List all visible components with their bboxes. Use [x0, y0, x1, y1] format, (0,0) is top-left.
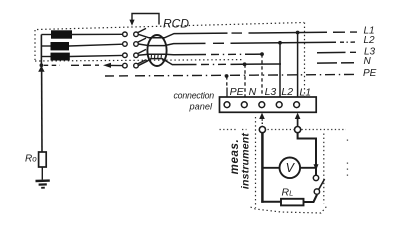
- toroid CT: [147, 35, 166, 66]
- wire L3 source to RCD: [70, 55, 123, 56]
- wire L2 drop: [279, 43, 281, 97]
- wire resistor to ground: [41, 167, 43, 180]
- svg-text:L3: L3: [265, 86, 277, 98]
- enclosure dotted left edge: [34, 30, 36, 60]
- wire L3 right segment: [317, 51, 346, 53]
- node L1 junction: [296, 31, 300, 35]
- switch lever: [319, 179, 325, 190]
- wire L2 dash segment: [213, 42, 224, 44]
- wire stub L1: [41, 34, 52, 36]
- wire N to RCD: [110, 64, 123, 66]
- svg-text:PE: PE: [363, 68, 377, 79]
- wire N right segments: [317, 62, 354, 64]
- wire L1 dash segment: [232, 32, 243, 34]
- enclosure dotted bottom edge: [35, 60, 244, 61]
- ground: [36, 181, 50, 188]
- transformer winding L1: [51, 30, 72, 38]
- arrow down on right branch: [314, 164, 319, 170]
- RCD switch pole L3: [123, 49, 146, 57]
- RCD switch pole L2: [123, 38, 146, 46]
- RCD pointer bracket: [132, 14, 159, 25]
- instrument dashed box bottom: [251, 207, 327, 214]
- wire L3 through toroid: [138, 54, 206, 55]
- wire L1 drop: [297, 33, 299, 97]
- wire L1 to panel drop: [249, 31, 328, 34]
- earthing wire to Ro: [41, 65, 43, 152]
- wire instrument left vertical: [261, 133, 264, 203]
- dotted row segments: [220, 129, 347, 131]
- svg-text:instrument: instrument: [240, 133, 252, 190]
- svg-text:PE: PE: [230, 86, 245, 98]
- wire dotted node to arrow: [261, 119, 263, 126]
- wire L1 continuation dashes: [333, 31, 357, 33]
- arrow up into terminal L1: [295, 113, 301, 119]
- node test lead right: [295, 127, 301, 133]
- switch contact bottom: [314, 189, 319, 194]
- wire L2 main: [231, 41, 337, 44]
- wire RL to switch: [304, 195, 318, 202]
- wire L3 dash-dot segment: [211, 53, 241, 55]
- wire node to arrow: [297, 119, 299, 126]
- wire L1 source to RCD: [70, 33, 123, 35]
- RCD switch pole L1: [123, 28, 146, 36]
- svg-text:L2: L2: [364, 35, 376, 46]
- wire PE drop lower: [226, 88, 228, 98]
- node L2 junction: [278, 41, 282, 45]
- wire voltmeter right lead: [300, 167, 316, 169]
- wire L2 continuation dash-dot: [340, 41, 355, 43]
- wire L3 drop dashed: [261, 54, 263, 97]
- wire L3 right dash: [350, 51, 356, 53]
- svg-text:N: N: [249, 86, 257, 98]
- wire N dash-dot segment: [201, 63, 226, 65]
- svg-text:L1: L1: [299, 87, 311, 99]
- wire L2 source to RCD: [69, 44, 123, 46]
- RCD switch pole N: [123, 60, 146, 68]
- svg-text:RL: RL: [282, 187, 294, 199]
- source bus wire: [40, 35, 42, 66]
- svg-text:N: N: [364, 56, 372, 67]
- arrow up on earthing wire: [38, 66, 44, 72]
- terminal L1: [294, 102, 300, 108]
- wire PE drop dashed: [226, 76, 228, 87]
- node N junction: [243, 62, 247, 66]
- svg-text:connection: connection: [173, 91, 214, 101]
- wire N at junction: [231, 63, 282, 65]
- arrow left on N wire: [103, 63, 111, 68]
- wire stub L2: [41, 45, 51, 47]
- instrument dashed box right: [323, 134, 325, 204]
- node L3 junction: [260, 52, 264, 56]
- wire L1 through toroid: [138, 33, 227, 38]
- svg-text:RCD: RCD: [163, 17, 189, 31]
- wire N drop dashed: [244, 64, 246, 97]
- connection panel box: [220, 97, 317, 112]
- terminal PE: [224, 102, 230, 108]
- wire voltmeter left lead: [262, 167, 279, 169]
- switch contact top: [313, 175, 318, 180]
- wire N mid dashed: [71, 64, 99, 66]
- wire stub L3: [41, 56, 51, 58]
- transformer winding L3: [51, 53, 70, 61]
- wire N left dashed: [44, 64, 60, 66]
- enclosure dotted top edge: [37, 23, 304, 30]
- wire instrument bottom: [261, 201, 281, 203]
- resistor Ro: [39, 152, 47, 167]
- wire L2 through toroid: [138, 43, 205, 45]
- terminal L2: [276, 102, 282, 108]
- svg-text:Ro: Ro: [25, 154, 37, 165]
- terminal N: [241, 102, 247, 108]
- resistor RL: [281, 199, 304, 206]
- enclosure dotted right edge: [304, 23, 306, 98]
- arrow down bracket: [129, 20, 134, 26]
- voltmeter V: [280, 158, 301, 179]
- wire N through toroid: [138, 59, 196, 66]
- transformer winding L2: [51, 42, 70, 50]
- svg-text:L2: L2: [281, 86, 293, 98]
- terminal L3: [259, 102, 265, 108]
- wire right branch: [298, 133, 316, 176]
- svg-text:panel: panel: [189, 102, 213, 112]
- wire PE dashed left: [105, 75, 128, 77]
- wire L3 at junction: [245, 53, 264, 55]
- instrument dashed box left: [255, 117, 257, 208]
- sparse dotted vertical right: [347, 140, 348, 176]
- wire PE dash-dot main: [135, 74, 354, 75]
- toroid winding ticks: [151, 55, 161, 58]
- arrow up into terminal L3: [259, 113, 265, 119]
- node star point junction: [40, 63, 44, 67]
- node PE junction: [225, 74, 229, 78]
- node test lead left: [259, 127, 265, 133]
